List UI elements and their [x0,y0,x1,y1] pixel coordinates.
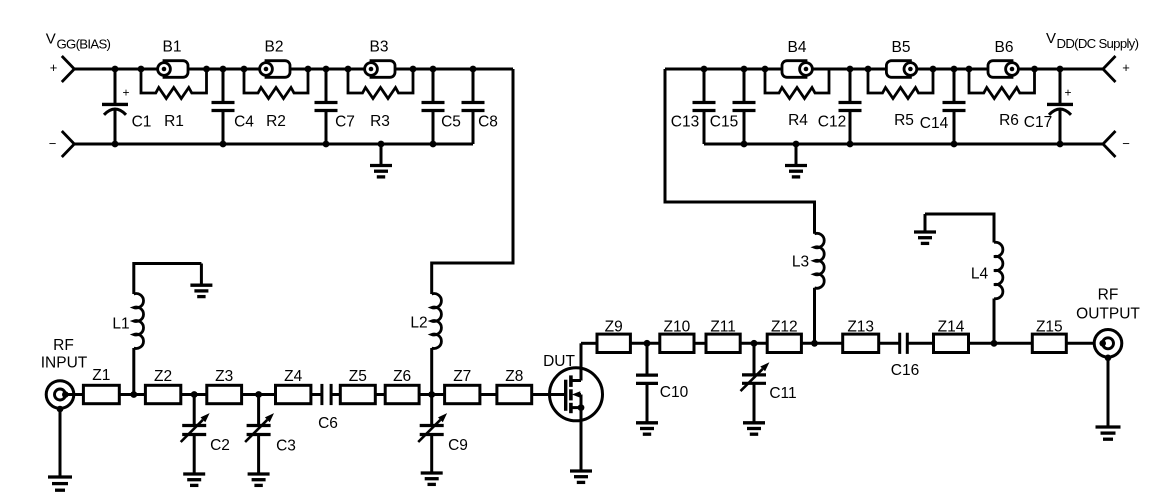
svg-text:Z3: Z3 [215,368,233,385]
node L1 bottom [130,391,137,398]
node C13 top [701,66,708,73]
node B4 left [762,66,769,73]
wire RF input to Z1 [65,393,84,396]
node ground tap VGG [378,141,385,148]
wire Z12 to Z13 [801,342,842,345]
transmission line Z14 [934,319,969,353]
svg-text:B3: B3 [370,39,389,56]
svg-text:R4: R4 [788,112,808,129]
svg-text:Z8: Z8 [505,368,523,385]
transmission line Z11 [706,319,740,353]
inductor L4 [925,214,1003,343]
resistor R6 [969,69,1035,129]
resistor R2 [244,69,308,130]
node B5 right [930,66,937,73]
connector RF INPUT [46,381,74,413]
svg-text:C7: C7 [335,114,355,131]
svg-text:C8: C8 [478,114,498,131]
svg-text:B2: B2 [265,39,284,56]
node C7 top [323,66,330,73]
node B2 left [241,66,248,73]
wire Z5 to Z6 [375,393,385,396]
transmission line Z7 [445,368,480,404]
svg-text:INPUT: INPUT [41,355,88,372]
svg-text:DD(DC Supply): DD(DC Supply) [1057,36,1139,51]
node L3 bottom [811,340,818,347]
node C1 top [112,66,119,73]
ferrite bead B6 [988,39,1018,77]
svg-text:Z2: Z2 [154,368,172,385]
label VDD (DC Supply) [1046,30,1139,51]
svg-text:R5: R5 [894,112,914,129]
capacitor C8 [462,69,498,144]
svg-text:R2: R2 [266,113,286,130]
svg-text:−: − [49,136,57,151]
wire VDD bottom rail [704,143,1103,146]
wire Z10 to Z11 [694,342,706,345]
ground VGG bottom rail [370,144,392,177]
svg-text:+: + [122,86,129,100]
wire Z8 to DUT gate [532,393,566,396]
svg-text:C13: C13 [671,114,699,131]
node B6 left [966,66,973,73]
transmission line Z3 [207,368,242,404]
ground C11 [743,423,765,434]
transmission line Z10 [660,319,694,353]
svg-text:Z9: Z9 [605,319,623,336]
svg-text:C9: C9 [448,437,468,454]
wire VGG rail to L2 [432,69,513,294]
svg-text:Z14: Z14 [938,319,965,336]
ferrite bead B5 [886,39,916,77]
resistor R3 [348,69,413,130]
svg-text:Z5: Z5 [349,368,367,385]
resistor R1 [141,69,207,130]
node B3 left [345,66,352,73]
label RF INPUT [41,337,88,372]
ground C10 [636,423,658,434]
svg-text:C6: C6 [318,415,338,432]
svg-text:Z1: Z1 [92,367,110,384]
svg-text:C17: C17 [1024,114,1052,131]
node L4 bottom [991,340,998,347]
capacitor C6 (series) [318,384,338,432]
transmission line Z15 [1032,319,1066,353]
svg-text:R6: R6 [999,112,1019,129]
transmission line Z13 [843,319,879,353]
svg-text:RF: RF [53,337,74,354]
node C5 top [430,66,437,73]
svg-text:C12: C12 [818,114,846,131]
svg-text:B4: B4 [788,39,807,56]
svg-text:Z10: Z10 [664,319,691,336]
capacitor C10 [636,343,689,423]
svg-text:R3: R3 [370,113,390,130]
resistor R4 [765,69,829,129]
wire VGG bottom rail [74,143,473,146]
capacitor C2 (variable) [181,395,230,475]
svg-text:V: V [46,31,56,48]
ferrite bead B2 [260,39,290,78]
terminal VGG + (plus) [50,56,75,82]
capacitor C13 [671,69,716,144]
node C4 top [220,66,227,73]
svg-text:C14: C14 [920,115,949,132]
node B1 right [203,66,210,73]
capacitor C12 [818,69,862,144]
node B2 right [305,66,312,73]
node C12 bottom [847,141,854,148]
node C2 top [191,391,198,398]
svg-text:L4: L4 [971,266,989,283]
transmission line Z4 [276,368,311,404]
transmission line Z9 [597,319,630,353]
transmission line Z2 [145,368,180,404]
svg-text:L2: L2 [410,315,427,332]
label DUT [543,353,575,370]
node C17 top [1057,66,1064,73]
ground VDD bottom rail [785,144,807,177]
ground C9 [421,473,443,484]
wire C16 to Z14 [907,342,933,345]
svg-text:Z11: Z11 [710,319,736,336]
wire Z9 to Z10 [630,342,659,345]
svg-text:C11: C11 [769,385,796,402]
inductor L2 [410,294,441,395]
ground DUT source [570,471,592,482]
wire Z14 to Z15 [969,342,1033,345]
ground C3 [248,474,270,485]
capacitor C5 [422,69,461,144]
node C11 top [751,340,758,347]
svg-text:C16: C16 [891,362,919,379]
svg-text:Z12: Z12 [771,319,798,336]
node C3 top [255,391,262,398]
ground L4 [914,214,936,243]
svg-text:B5: B5 [892,39,911,56]
svg-text:C15: C15 [710,114,738,131]
capacitor C16 (series) [891,333,919,379]
node C14 bottom [951,141,958,148]
svg-text:+: + [1122,60,1130,75]
wire VDD rail to L3 [665,69,815,234]
wire Z6 to Z7 [419,393,445,396]
node C8 top [470,66,477,73]
connector RF OUTPUT [1094,330,1122,362]
node B3 right [410,66,417,73]
capacitor C3 (variable) [245,395,296,475]
ferrite bead B4 [782,39,812,77]
svg-text:+: + [1064,86,1071,100]
node B1 left [138,66,145,73]
svg-text:Z15: Z15 [1036,319,1063,336]
wire Z11 to Z12 [740,342,767,345]
svg-text:+: + [50,60,58,75]
wire Z15 to RF output [1066,342,1102,345]
terminal VDD + (plus) [1103,56,1130,82]
capacitor C1 (polarized) [102,69,151,144]
transmission line Z8 [497,368,532,404]
svg-text:RF: RF [1098,287,1119,304]
capacitor C9 (variable) [418,395,468,474]
wire VGG top rail [74,68,513,71]
svg-text:Z7: Z7 [453,368,471,385]
svg-text:C10: C10 [660,384,689,401]
svg-text:L3: L3 [792,254,809,271]
svg-text:C4: C4 [234,114,254,131]
svg-text:−: − [1122,136,1130,151]
svg-text:Z13: Z13 [847,319,874,336]
transmission line Z1 [83,367,119,404]
ferrite bead B1 [158,39,188,78]
ground RF OUTPUT [1096,358,1121,439]
node C7 bottom [323,141,330,148]
wire Z13 to C16 [879,342,900,345]
node C14 top [951,66,958,73]
node L2/C9 [428,391,435,398]
node C15 top [741,66,748,73]
terminal VDD - (minus) [1103,131,1130,157]
transistor DUT (MOSFET) [550,343,603,470]
node C17 bottom [1057,141,1064,148]
wire Z4 to C6 [311,393,322,396]
transmission line Z5 [340,368,375,404]
transmission line Z12 [767,319,801,353]
capacitor C7 [315,69,355,144]
wire Z7 to Z8 [480,393,497,396]
svg-text:GG(BIAS): GG(BIAS) [57,36,111,51]
svg-text:B6: B6 [995,39,1014,56]
wire VDD top rail [665,68,1103,71]
svg-text:C5: C5 [441,114,461,131]
svg-text:C3: C3 [276,438,296,455]
node C4 bottom [220,141,227,148]
terminal VGG - (minus) [49,131,75,157]
wire Z3 to Z4 [242,393,276,396]
capacitor C4 [212,69,255,144]
wire DUT drain to Z9 [581,342,597,345]
svg-text:V: V [1046,30,1056,47]
transmission line Z6 [385,368,419,404]
wire Z2 to Z3 [181,393,207,396]
wire Z1 to L1 node [119,393,145,396]
svg-text:L1: L1 [112,316,129,333]
capacitor C14 [920,69,966,144]
ground C2 [183,474,205,485]
svg-text:Z6: Z6 [393,368,411,385]
wire C6 to Z5 [331,393,340,396]
svg-text:C1: C1 [132,114,152,131]
inductor L3 [792,233,824,343]
ferrite bead B3 [365,39,395,78]
inductor L1 [112,264,201,395]
node B5 left [865,66,872,73]
resistor R5 [868,69,933,129]
node C15 bottom [741,141,748,148]
label RF OUTPUT [1076,287,1140,323]
svg-text:Z4: Z4 [284,368,302,385]
node C10 top [644,340,651,347]
label VGG (BIAS) supply [46,31,111,52]
ground RF INPUT [48,409,72,490]
capacitor C17 (polarized) [1024,69,1073,144]
capacitor C11 (variable) [741,343,797,423]
svg-text:OUTPUT: OUTPUT [1076,306,1140,323]
node C12 top [847,66,854,73]
node ground tap VDD [793,141,800,148]
svg-text:C2: C2 [210,437,230,454]
ground L1 [190,264,212,297]
node B6 right [1031,66,1038,73]
svg-text:R1: R1 [164,113,184,130]
node C5 bottom [430,141,437,148]
capacitor C15 [710,69,756,144]
node C1 bottom [112,141,119,148]
svg-text:B1: B1 [163,39,182,56]
